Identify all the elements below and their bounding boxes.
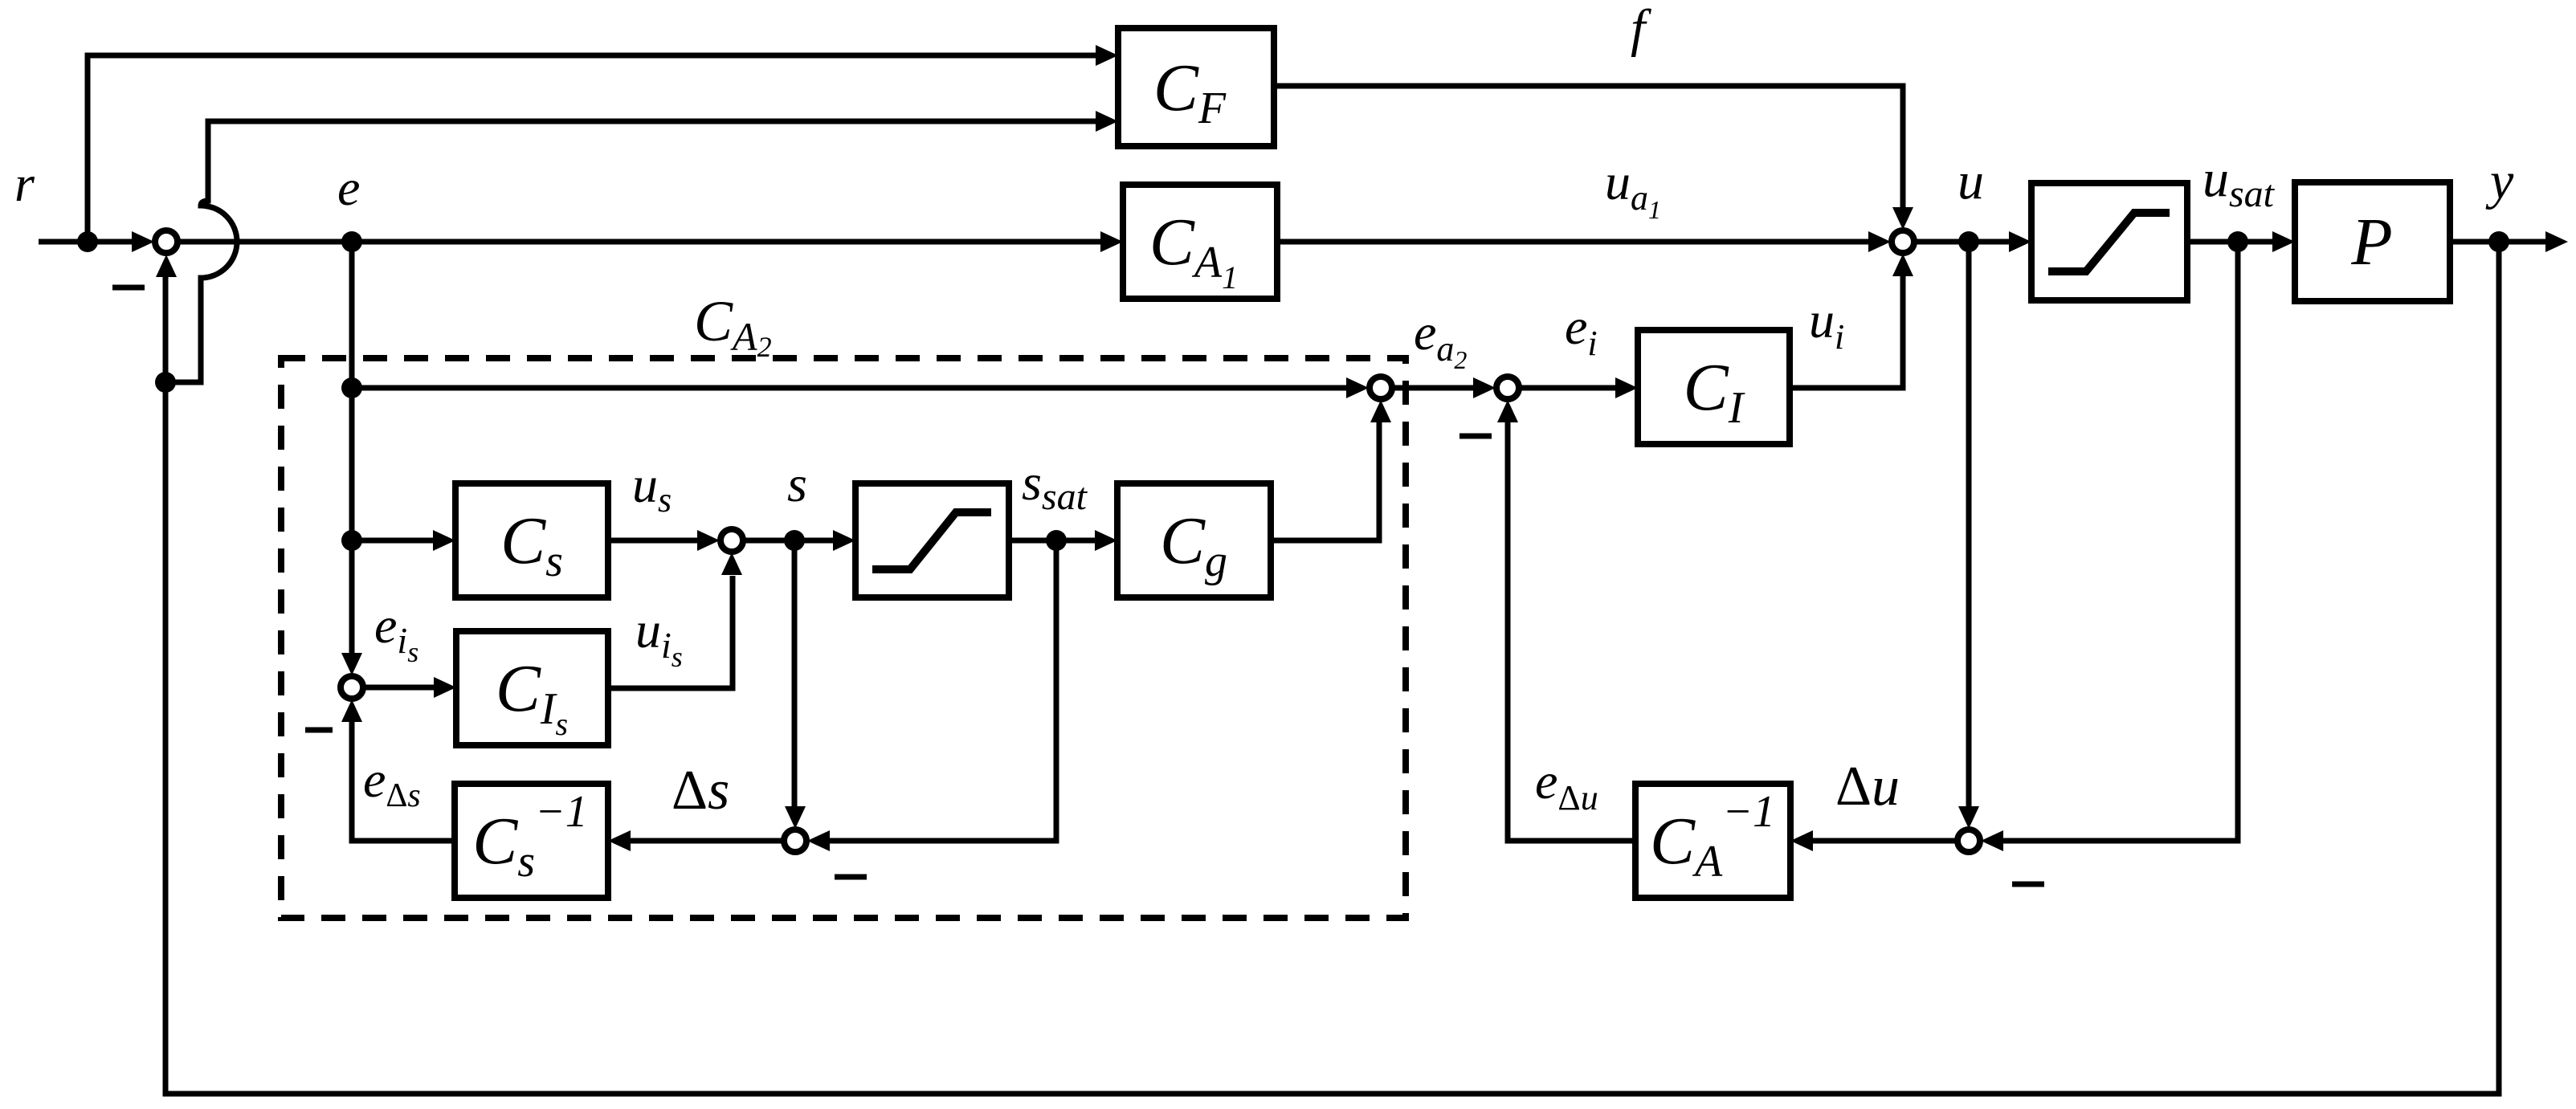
wire e branch down [349,242,355,653]
node feedback branch dot [155,372,176,393]
svg-text:Δu: Δu [1835,756,1900,817]
wire s_sat [1009,538,1095,544]
node e branch dot [341,231,362,252]
wire u_sat [2187,239,2272,245]
node e/ea2 dot [341,377,362,398]
wire ds to Cs-1 [631,838,783,844]
block C_Is [456,631,608,745]
wire e [178,239,1100,245]
node y dot [2488,231,2509,252]
svg-text:s: s [787,455,807,512]
svg-text:r: r [14,155,35,212]
block C_g [1117,483,1271,597]
wire u_i [1790,276,1903,388]
node u_sat dot [2227,231,2248,252]
saturation block 2 [855,483,1009,597]
svg-text:e: e [337,159,360,216]
wire s [744,538,833,544]
svg-text:Δs: Δs [672,760,729,822]
node s dot [784,530,805,551]
minus sign at du junction [2012,882,2044,887]
node e/us dot [341,530,362,551]
wire y feedback hop to CF input 2 [165,121,1096,382]
wire C_g out to ea2 junction [1271,422,1379,540]
node u dot [1958,231,1979,252]
summing junction ei [1496,377,1519,399]
wire e_is to C_Is [364,685,434,691]
svg-text:u: u [1958,152,1984,210]
summing junction ds [784,830,806,852]
summing junction S2 [1892,230,1914,253]
block C_F [1118,28,1274,146]
wire e_ds [352,722,455,841]
wire y output [2450,239,2545,245]
wire r input [39,239,133,245]
minus sign at S1 [112,285,145,291]
wire ea2 to ei junction [1393,385,1473,391]
summing junction S1 [155,230,178,253]
wire u [1915,239,2009,245]
minus sign at eis junction [305,728,333,733]
wire y feedback main loop [165,242,2499,1094]
wire s branch down to ds junction [792,540,798,806]
wire r to CF input 1 [88,55,1096,242]
summing junction ea2 [1370,377,1392,399]
node s_sat dot [1046,530,1067,551]
wire s_sat branch down to ds junction [830,540,1056,841]
dashed box C_A2 [281,358,1406,918]
saturation block 1 [2031,183,2187,300]
wire u_s [608,538,697,544]
wire du to CA-1 [1813,838,1957,844]
summing junction du [1958,830,1980,852]
wire e_du [1508,422,1635,841]
wire u_a1 [1277,239,1868,245]
node r branch dot [77,231,98,252]
summing junction us [721,529,743,552]
wire e to C_s [352,538,433,544]
block C_A1 [1123,185,1277,299]
summing junction eis [341,676,363,699]
wire e_i [1520,385,1615,391]
block P [2295,182,2450,301]
wire u branch down [1966,242,1972,806]
wire e_a2 [352,385,1346,391]
svg-text:y: y [2485,152,2514,210]
wire u_sat branch down [2003,242,2238,841]
block C_s [455,483,608,597]
block Cs-1 [455,784,608,898]
minus sign at ds junction [835,875,867,880]
wire f [1274,86,1903,207]
minus sign at ei junction [1459,434,1492,439]
svg-text:P: P [2350,205,2392,279]
block CA-1 [1635,784,1790,898]
wire u_is [608,576,733,688]
block C_I [1638,330,1790,444]
